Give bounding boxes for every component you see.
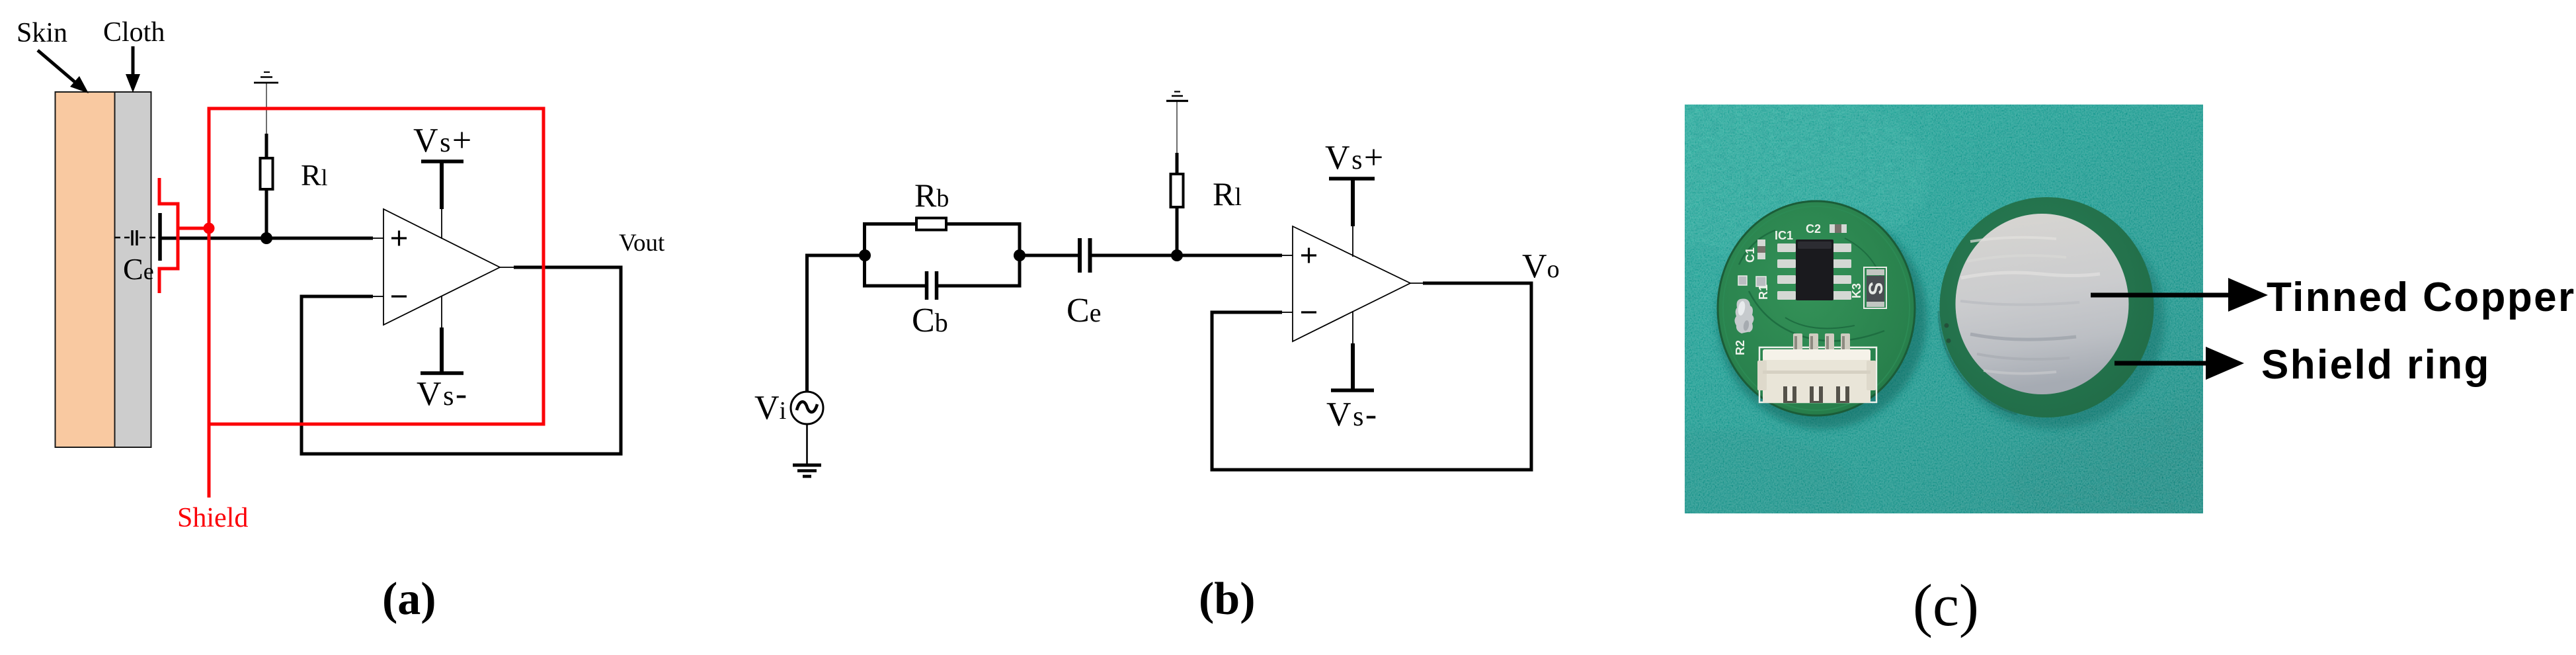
svg-text:K3: K3 xyxy=(1850,283,1863,298)
photo background xyxy=(1577,93,2341,556)
svg-text:Cloth: Cloth xyxy=(103,17,165,48)
skin layer xyxy=(56,92,115,447)
node A (left of Rb/Cb) xyxy=(859,249,871,261)
wire Vi to node A xyxy=(807,255,865,392)
wire + input (a) xyxy=(160,237,383,240)
svg-text:(b): (b) xyxy=(1199,574,1256,625)
svg-text:Vs+: Vs+ xyxy=(1325,139,1385,177)
solder blob C3 xyxy=(1735,298,1754,333)
svg-text:Rl: Rl xyxy=(1213,175,1242,212)
label Tinned Copper xyxy=(2267,275,2576,320)
supply Vs- (a) xyxy=(417,296,469,413)
node shield junction xyxy=(204,223,215,234)
arrow Cloth xyxy=(126,46,140,93)
shield box xyxy=(209,109,543,424)
resistor pads R1 xyxy=(1738,276,1770,300)
fiducial dots xyxy=(1945,324,1951,343)
wire shield tap xyxy=(178,227,209,230)
wire node B to Ce xyxy=(1020,254,1078,257)
shield ring disc xyxy=(1939,197,2154,417)
wire feedback loop (b) xyxy=(1212,283,1531,470)
wire feedback loop (a) xyxy=(302,267,621,454)
wire ground stem (a) xyxy=(266,83,267,134)
label Ce (b) xyxy=(1067,292,1101,329)
label Shield ring xyxy=(2261,342,2491,388)
label R1 (a) xyxy=(301,158,328,192)
electrode plate xyxy=(158,213,162,261)
label Vi xyxy=(754,389,786,427)
caption (a) xyxy=(382,574,436,625)
caption (b) xyxy=(1199,574,1256,625)
svg-text:R1: R1 xyxy=(1757,284,1770,300)
ground (b source) xyxy=(793,465,821,476)
arrow Skin xyxy=(38,50,89,93)
op-amp U1 xyxy=(383,209,500,325)
arrow shield ring xyxy=(2114,347,2244,380)
supply Vs- (b) xyxy=(1326,311,1379,433)
wire + input (b) xyxy=(1177,254,1293,257)
wire output (a) xyxy=(500,267,623,268)
ground (b R1) xyxy=(1166,92,1188,101)
capacitor Cb xyxy=(927,271,937,300)
svg-text:Tinned Copper: Tinned Copper xyxy=(2267,275,2576,320)
node R1 junction (a) xyxy=(261,232,272,244)
PCB disc xyxy=(1718,201,1915,415)
SMD K3 with S mark xyxy=(1850,267,1886,308)
silkscreen R2 xyxy=(1734,340,1747,355)
silkscreen IC1 xyxy=(1775,229,1793,242)
svg-text:Cb: Cb xyxy=(912,302,948,339)
label Vo xyxy=(1522,247,1560,285)
arrow tinned copper xyxy=(2091,278,2268,312)
svg-text:(c): (c) xyxy=(1913,573,1979,638)
supply Vs+ (b) xyxy=(1325,139,1385,257)
wire Rb branch xyxy=(865,224,1020,256)
label Skin xyxy=(17,18,67,48)
op-amp U2 xyxy=(1293,226,1410,341)
svg-text:Shield ring: Shield ring xyxy=(2261,342,2491,388)
PCB shadow xyxy=(1718,209,1927,429)
label Cloth xyxy=(103,17,165,48)
source Vi xyxy=(791,392,823,424)
wire Cb branch xyxy=(865,255,1020,286)
connector K1 (JST) xyxy=(1757,333,1876,403)
wire ground stem (b) xyxy=(1176,102,1178,153)
svg-text:C2: C2 xyxy=(1806,222,1821,236)
node C (R1 junction b) xyxy=(1171,249,1183,261)
wire Ce to node C xyxy=(1092,254,1177,257)
svg-text:Vout: Vout xyxy=(619,230,665,257)
ground (a) xyxy=(254,72,278,83)
node B (right of Rb/Cb) xyxy=(1014,249,1026,261)
svg-text:Vs-: Vs- xyxy=(417,375,469,413)
capacitor Ce (b) xyxy=(1080,238,1090,273)
svg-text:C1: C1 xyxy=(1744,247,1757,263)
svg-text:(a): (a) xyxy=(382,574,436,625)
resistor R1 (b) xyxy=(1171,153,1184,255)
resistor Rb xyxy=(916,218,946,230)
svg-text:IC1: IC1 xyxy=(1775,229,1793,242)
shield guard ring (red bracket) xyxy=(159,178,178,293)
svg-text:Shield: Shield xyxy=(177,503,248,533)
silkscreen C2 + cap C2 xyxy=(1806,222,1847,236)
label R1 (b) xyxy=(1213,175,1242,212)
svg-text:Vs-: Vs- xyxy=(1326,396,1379,433)
svg-text:Vs+: Vs+ xyxy=(413,122,473,159)
svg-text:Vi: Vi xyxy=(754,389,786,427)
IC U3 (SOIC-8) xyxy=(1777,240,1851,300)
silkscreen C1 + cap C1 xyxy=(1744,240,1765,263)
label Vout xyxy=(619,230,665,257)
shield disc shadow xyxy=(1943,212,2165,429)
label Shield xyxy=(177,503,248,533)
svg-text:Skin: Skin xyxy=(17,18,67,48)
wire Vi to ground xyxy=(806,424,808,465)
svg-text:Rb: Rb xyxy=(914,177,949,214)
tinned copper disc xyxy=(1956,214,2129,394)
svg-text:S: S xyxy=(1865,282,1886,295)
label Cb xyxy=(912,302,948,339)
wire shield stub xyxy=(208,424,211,498)
resistor R1 (a) xyxy=(261,134,273,238)
svg-text:Vo: Vo xyxy=(1522,247,1560,285)
caption (c) xyxy=(1913,573,1979,638)
cloth layer xyxy=(115,92,151,447)
svg-text:R2: R2 xyxy=(1734,340,1747,355)
svg-text:Ce: Ce xyxy=(1067,292,1101,329)
supply Vs+ (a) xyxy=(413,122,473,239)
svg-text:Rl: Rl xyxy=(301,158,328,192)
wire output (b) xyxy=(1410,283,1533,284)
label Rb xyxy=(914,177,949,214)
label Ce (a) xyxy=(123,252,154,286)
capacitor Ce (coupling, dashed leads) xyxy=(114,230,157,245)
